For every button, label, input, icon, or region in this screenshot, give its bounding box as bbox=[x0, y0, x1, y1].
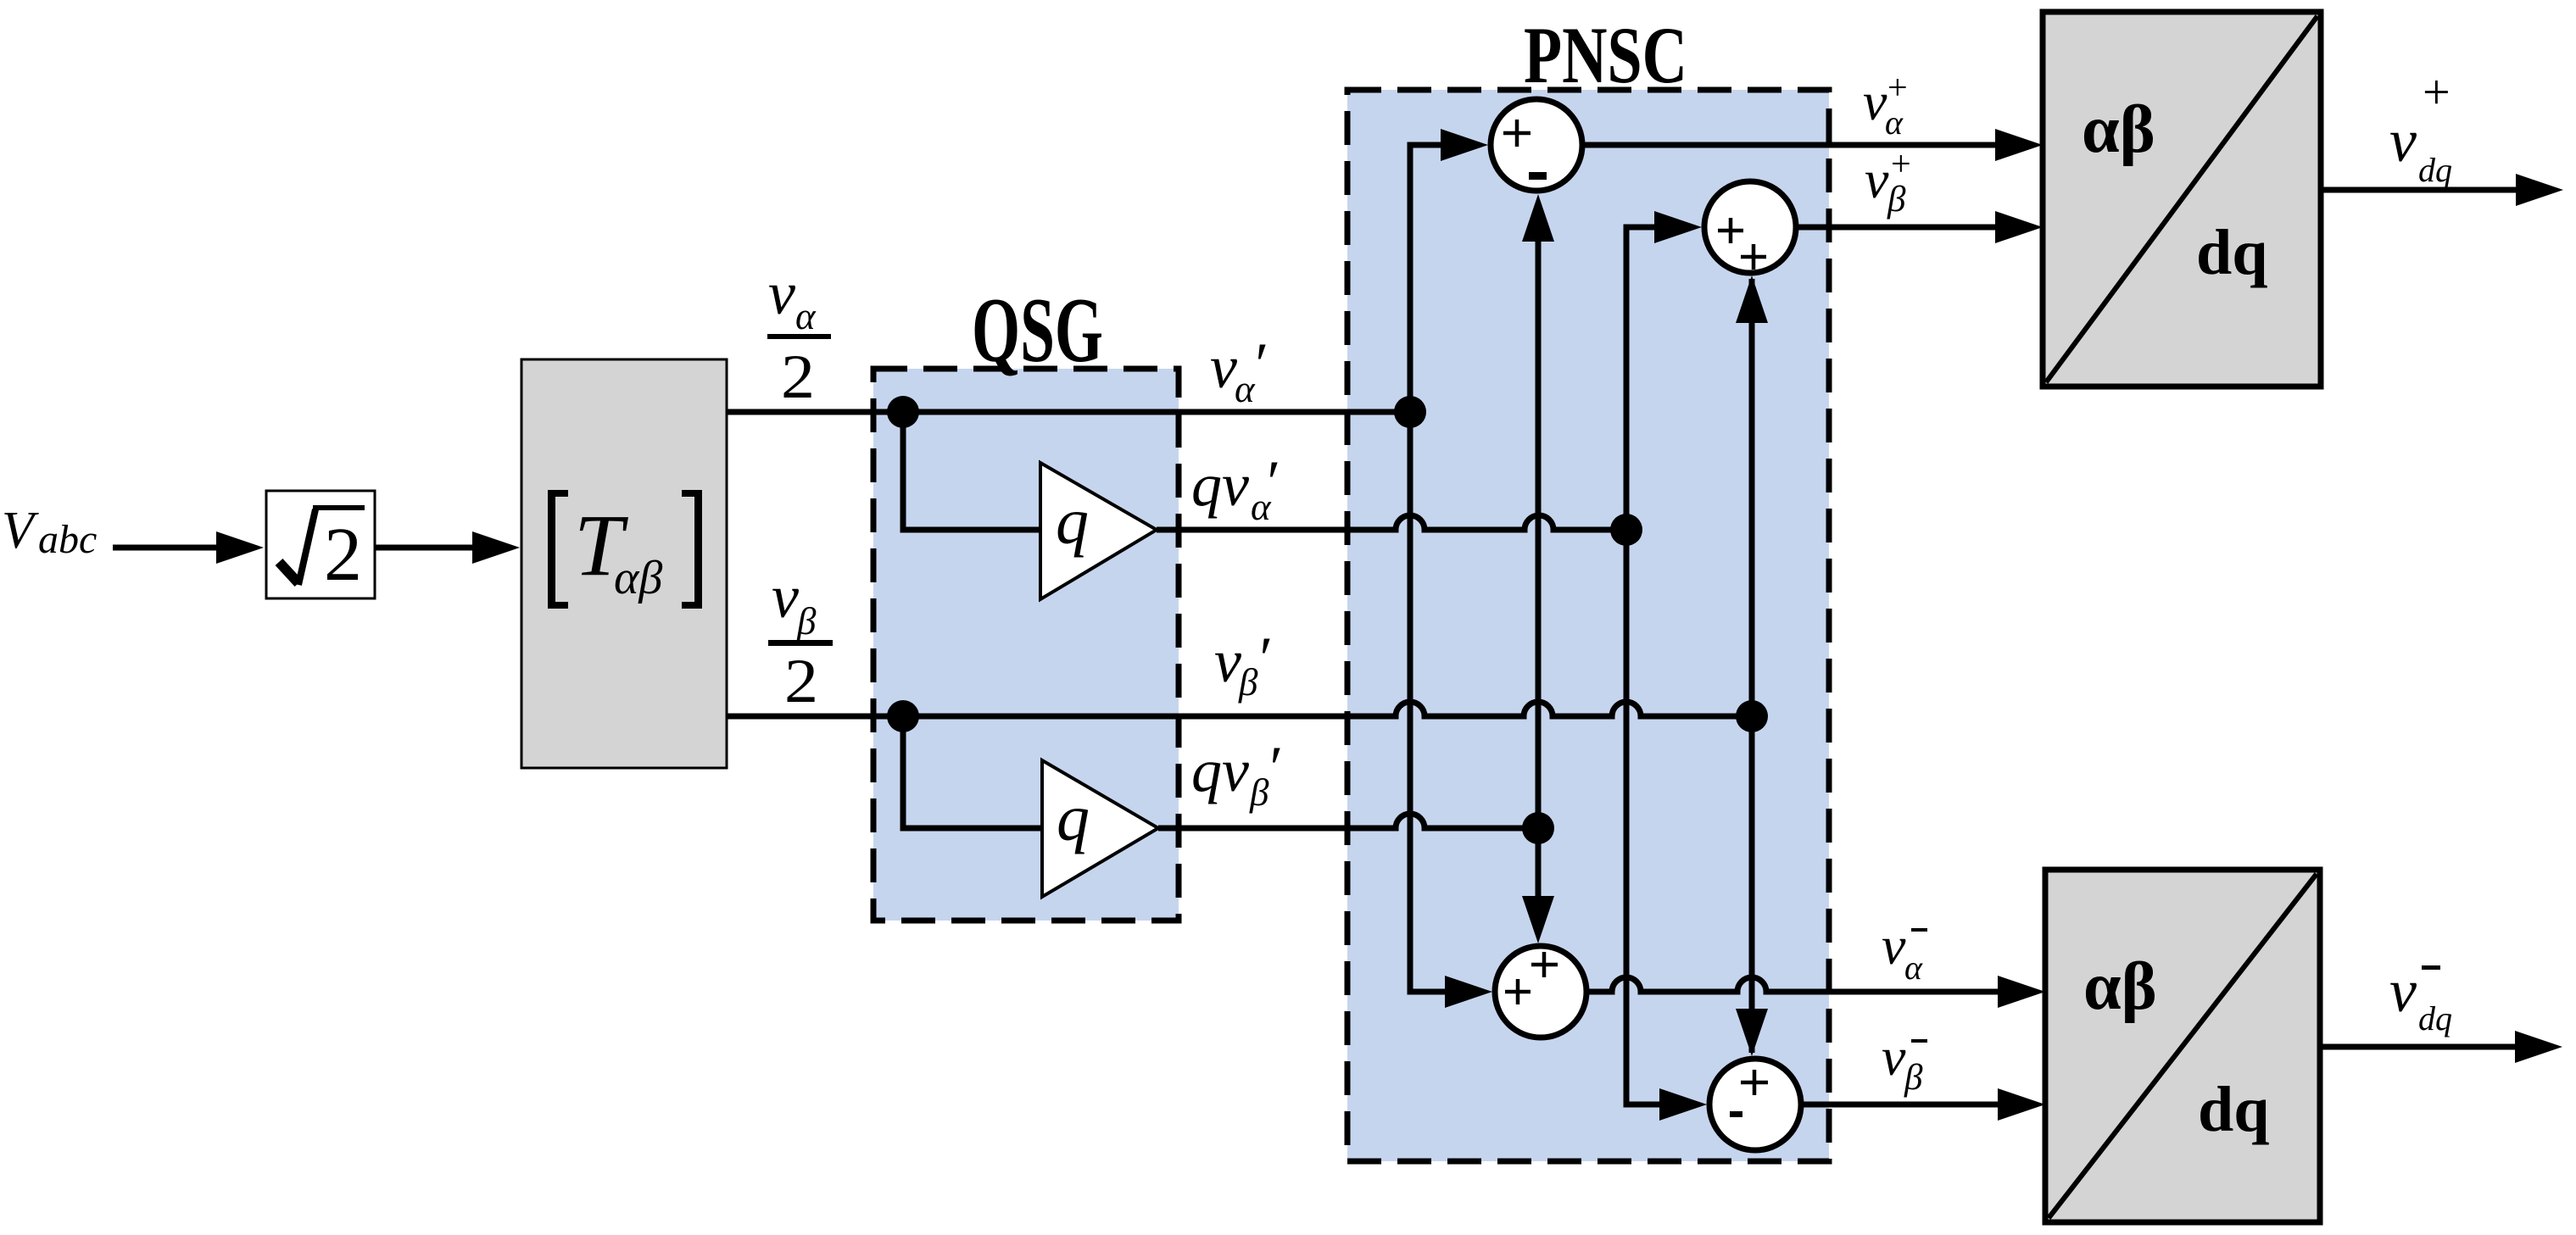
junction dot vb to riser D bbox=[1736, 700, 1768, 732]
transformation block ab-dq top bbox=[2043, 12, 2321, 387]
svg-text:α: α bbox=[1904, 949, 1923, 987]
svg-text:β: β bbox=[796, 600, 817, 643]
svg-text:v: v bbox=[1882, 1026, 1906, 1087]
arrowhead vb- into bottom ab-dq block bbox=[1998, 1088, 2045, 1121]
svg-text:+: + bbox=[1887, 69, 1908, 108]
svg-text:αβ: αβ bbox=[2083, 949, 2157, 1024]
svg-text:v: v bbox=[2389, 107, 2417, 175]
wire qva line from q1 into PNSC with hops bbox=[1157, 515, 1626, 530]
svg-text:dq: dq bbox=[2196, 217, 2268, 288]
svg-text:qv: qv bbox=[1191, 737, 1249, 804]
svg-text:2: 2 bbox=[784, 647, 818, 716]
wire sqrt2 to Tab bbox=[375, 545, 477, 551]
arrowhead output vdq- bbox=[2515, 1031, 2562, 1063]
PNSC dashed border bbox=[1347, 90, 1829, 1161]
label vb- bbox=[1882, 1026, 1927, 1098]
svg-text:+: + bbox=[2423, 64, 2451, 120]
svg-text:v: v bbox=[1210, 333, 1237, 401]
wire branch to amplifier q2 bbox=[903, 716, 1042, 828]
gain block sqrt2 bbox=[266, 491, 375, 598]
wire vb line from Tab through QSG to PNSC with hops bbox=[727, 702, 1752, 716]
wire va line from Tab through QSG to PNSC bbox=[727, 409, 1410, 415]
junction dot qvb to riser B bbox=[1522, 812, 1554, 844]
arrowhead into summer S1 left bbox=[1441, 129, 1488, 161]
label vb/2 bbox=[768, 563, 833, 716]
wire qvb line from q2 into PNSC with hop bbox=[1158, 814, 1538, 828]
svg-text:+: + bbox=[1891, 145, 1911, 184]
svg-text:α: α bbox=[795, 295, 817, 337]
wire S2 output vb+ bbox=[1796, 225, 1998, 231]
svg-text:V: V bbox=[2, 502, 39, 559]
QSG block background bbox=[873, 369, 1179, 921]
summer S2 bbox=[1704, 181, 1796, 273]
svg-text:αβ: αβ bbox=[2082, 92, 2155, 167]
svg-text:dq: dq bbox=[2418, 151, 2452, 189]
label qva prime bbox=[1191, 448, 1278, 528]
arrowhead into summer S2 bottom bbox=[1736, 275, 1768, 323]
label va prime bbox=[1210, 331, 1266, 410]
label vdq- bbox=[2389, 957, 2452, 1038]
summer S4 bbox=[1709, 1059, 1801, 1150]
label vdq+ bbox=[2389, 64, 2452, 189]
arrowhead va+ into top ab-dq block bbox=[1995, 129, 2043, 161]
junction dot qva to riser C bbox=[1610, 514, 1642, 546]
svg-text:′: ′ bbox=[1252, 331, 1266, 398]
transformation block Tab bbox=[521, 359, 727, 768]
junction dot on vb line in QSG bbox=[887, 700, 919, 732]
summer S1 bbox=[1491, 99, 1582, 191]
wire top block output vdq+ bbox=[2321, 187, 2517, 193]
wire branch to amplifier q1 bbox=[903, 412, 1040, 530]
arrowhead into summer S1 bottom bbox=[1522, 194, 1554, 242]
label va- bbox=[1882, 915, 1927, 987]
svg-text:2: 2 bbox=[781, 342, 815, 412]
svg-text:dq: dq bbox=[2198, 1074, 2270, 1145]
riser D vertical wire x2066 bbox=[1749, 279, 1755, 1053]
summer S3 bbox=[1495, 946, 1586, 1038]
svg-text:α: α bbox=[1885, 103, 1904, 142]
amplifier q1 bbox=[1040, 463, 1157, 599]
arrowhead into summer S2 left bbox=[1654, 211, 1702, 243]
input label Vabc bbox=[2, 502, 97, 562]
svg-text:v: v bbox=[768, 259, 795, 327]
arrowhead into summer S4 top bbox=[1736, 1009, 1768, 1056]
amplifier q2 bbox=[1042, 760, 1158, 897]
arrowhead into Tab block bbox=[472, 531, 520, 564]
svg-text:β: β bbox=[1887, 180, 1906, 220]
svg-text:dq: dq bbox=[2418, 999, 2452, 1038]
svg-text:′: ′ bbox=[1256, 625, 1270, 693]
svg-text:2: 2 bbox=[324, 513, 362, 597]
svg-text:PNSC: PNSC bbox=[1524, 10, 1687, 100]
svg-text:qv: qv bbox=[1191, 451, 1249, 519]
arrowhead into summer S3 top bbox=[1522, 896, 1554, 943]
svg-text:v: v bbox=[1865, 149, 1889, 209]
label vb prime bbox=[1214, 625, 1270, 704]
svg-text:v: v bbox=[772, 563, 799, 631]
junction dot va to riser A bbox=[1394, 396, 1426, 428]
arrowhead va- into bottom ab-dq block bbox=[1998, 976, 2045, 1008]
svg-text:q: q bbox=[1056, 484, 1089, 558]
arrowhead into summer S3 left bbox=[1445, 976, 1492, 1008]
label qvb prime bbox=[1191, 734, 1280, 814]
svg-text:αβ: αβ bbox=[614, 552, 662, 604]
arrowhead into summer S4 left bbox=[1659, 1088, 1707, 1121]
svg-text:v: v bbox=[1863, 71, 1887, 131]
label vb+ bbox=[1865, 145, 1911, 220]
svg-text:abc: abc bbox=[38, 517, 97, 562]
riser C vertical wire x1918 bbox=[1626, 227, 1662, 1104]
QSG dashed border bbox=[873, 369, 1179, 921]
junction dot on va line in QSG bbox=[887, 396, 919, 428]
svg-text:β: β bbox=[1904, 1058, 1923, 1098]
svg-text:′: ′ bbox=[1266, 734, 1280, 802]
label va+ bbox=[1863, 69, 1908, 142]
PNSC block background bbox=[1347, 90, 1829, 1161]
transformation block ab-dq bottom bbox=[2045, 870, 2320, 1222]
svg-text:q: q bbox=[1057, 781, 1090, 854]
wire S3 output va- with hops bbox=[1586, 977, 2000, 992]
arrowhead output vdq+ bbox=[2516, 174, 2563, 206]
wire S1 output va+ bbox=[1582, 142, 1998, 148]
svg-text:′: ′ bbox=[1263, 448, 1278, 516]
riser B vertical wire x1814 bbox=[1536, 237, 1542, 900]
arrowhead vb+ into top ab-dq block bbox=[1995, 211, 2043, 243]
arrowhead into sqrt2 box bbox=[216, 531, 264, 564]
svg-text:v: v bbox=[2389, 957, 2417, 1025]
label va/2 bbox=[767, 259, 831, 412]
wire S4 output vb- bbox=[1801, 1102, 2000, 1108]
riser A vertical wire x1663 bbox=[1410, 145, 1448, 992]
svg-text:v: v bbox=[1882, 915, 1906, 976]
wire bottom block output vdq- bbox=[2320, 1044, 2516, 1050]
wire Vabc to sqrt2 bbox=[113, 545, 220, 551]
svg-text:v: v bbox=[1214, 627, 1241, 695]
